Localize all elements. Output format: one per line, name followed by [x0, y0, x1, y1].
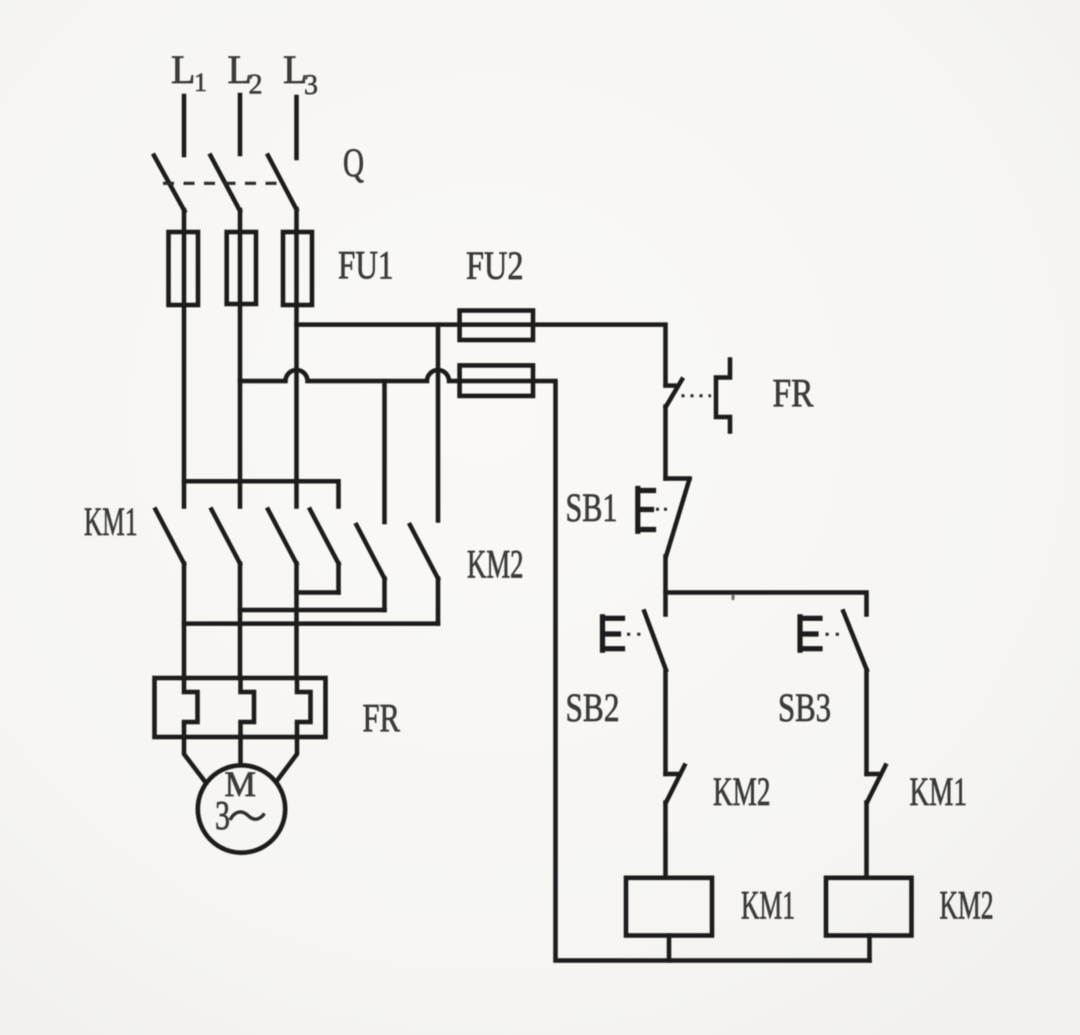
svg-text:1: 1: [194, 68, 207, 97]
svg-text:SB3: SB3: [778, 685, 831, 730]
svg-text:2: 2: [249, 70, 263, 101]
svg-text:FU2: FU2: [466, 243, 524, 288]
svg-text:KM2: KM2: [467, 542, 524, 587]
svg-text:FR: FR: [773, 371, 814, 416]
svg-text:SB2: SB2: [566, 685, 620, 730]
svg-text:FU1: FU1: [338, 243, 394, 288]
svg-text:FR: FR: [363, 696, 401, 741]
svg-text:3: 3: [304, 70, 318, 101]
svg-text:KM2: KM2: [713, 769, 771, 814]
svg-text:L: L: [171, 47, 195, 92]
svg-text:KM2: KM2: [940, 883, 994, 928]
svg-text:3: 3: [215, 792, 230, 838]
svg-text:KM1: KM1: [741, 883, 795, 928]
svg-text:Q: Q: [343, 140, 364, 185]
svg-text:KM1: KM1: [84, 499, 138, 544]
svg-text:SB1: SB1: [566, 485, 618, 530]
svg-text:KM1: KM1: [910, 769, 968, 814]
